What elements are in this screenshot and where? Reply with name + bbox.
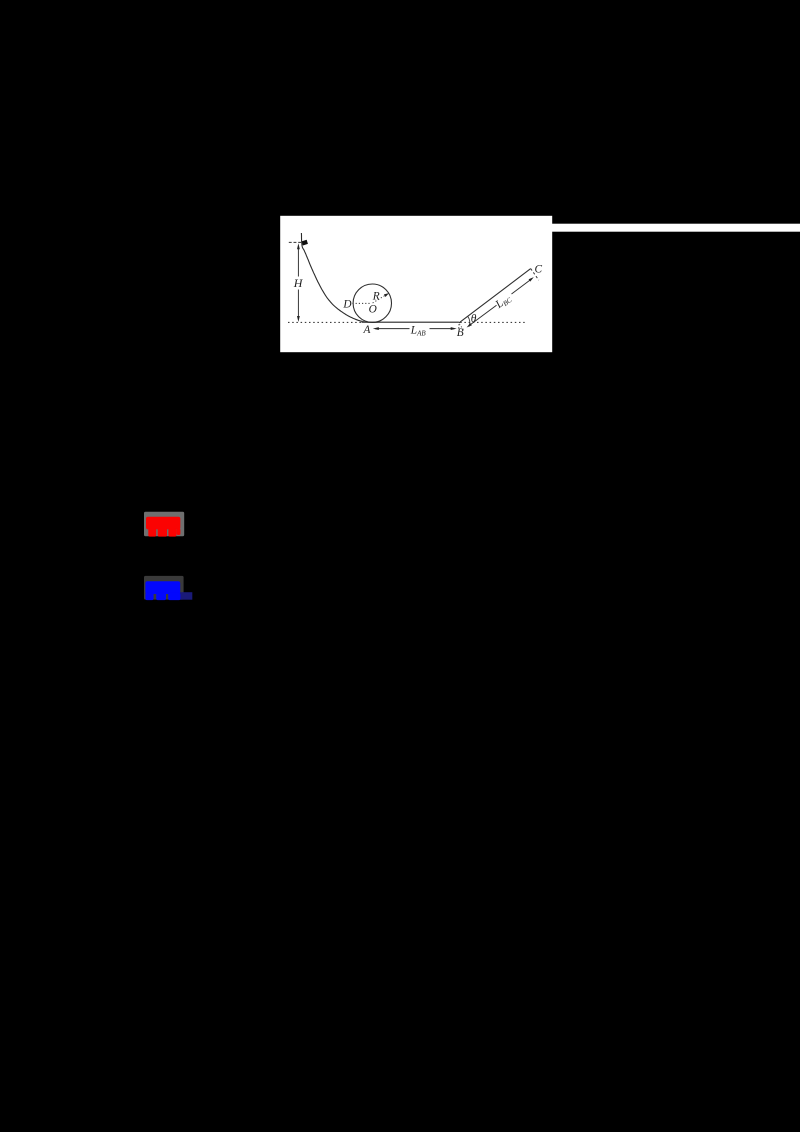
dotted line D to O <box>352 302 371 304</box>
svg-text:H: H <box>293 276 304 290</box>
angle theta arc <box>468 316 470 326</box>
svg-text:D: D <box>342 299 351 311</box>
svg-text:θ: θ <box>471 313 477 325</box>
svg-text:O: O <box>369 304 377 316</box>
svg-text:C: C <box>535 264 543 276</box>
block on ramp top <box>302 240 308 246</box>
red answer button background <box>144 512 184 537</box>
pulley circle O <box>353 284 391 322</box>
label L_BC (rotated) <box>493 292 514 312</box>
ground dotted line <box>288 321 526 323</box>
dashed height reference line <box>289 241 301 243</box>
AB track solid line <box>362 321 459 323</box>
svg-text:R: R <box>372 291 380 303</box>
white strip right of panel <box>552 224 800 232</box>
blue answer button background <box>144 576 184 600</box>
dotted mark below B <box>458 324 460 329</box>
H arrowheads <box>297 243 300 249</box>
incline upper edge from B <box>459 269 531 323</box>
radius R dotted arrow <box>373 295 386 303</box>
curved ramp <box>301 233 372 322</box>
H dimension line <box>297 247 299 320</box>
navy sub-rect <box>177 592 192 600</box>
dashed end cap at C <box>531 269 539 281</box>
L_AB dimension arrow <box>375 328 455 330</box>
blue answer text blob <box>145 581 180 600</box>
white diagram panel <box>280 216 552 352</box>
dotted end cap at B <box>459 324 464 331</box>
L_BC dimension arrow <box>471 280 530 324</box>
red answer text blob <box>146 517 180 537</box>
svg-text:A: A <box>363 324 371 336</box>
